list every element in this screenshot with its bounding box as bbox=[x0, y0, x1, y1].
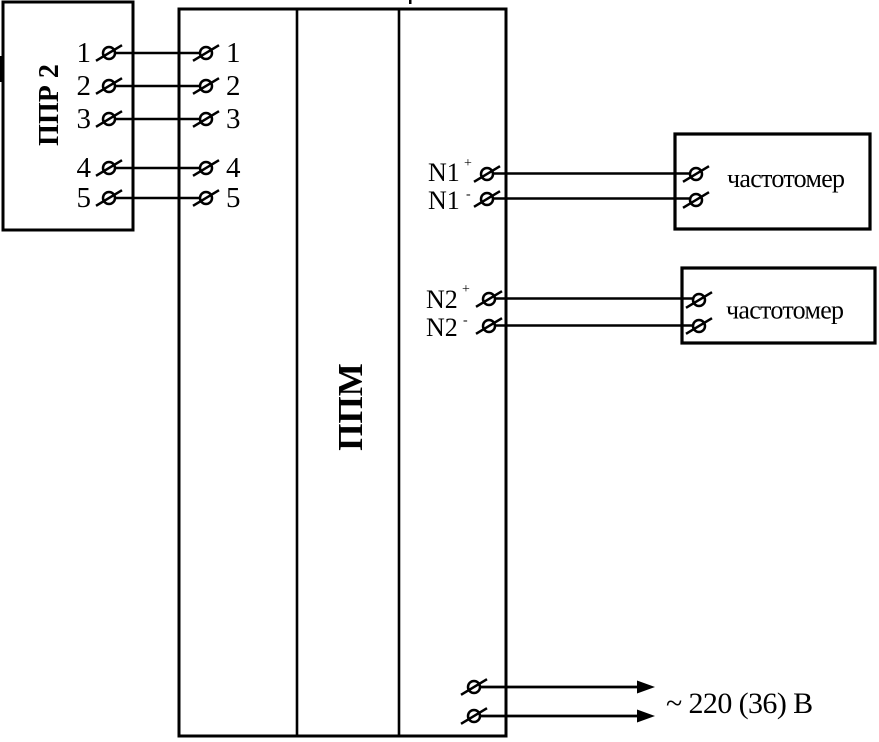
svg-text:1: 1 bbox=[77, 37, 92, 69]
svg-text:2: 2 bbox=[226, 70, 241, 102]
terminal ППР2-2 bbox=[96, 78, 122, 94]
svg-text:N1: N1 bbox=[428, 186, 460, 215]
wire 2 bbox=[116, 85, 199, 88]
svg-text:-: - bbox=[463, 313, 468, 328]
terminal ППМ-5 bbox=[193, 190, 219, 206]
arrowhead power L bbox=[637, 681, 655, 694]
wire 3 bbox=[116, 118, 199, 121]
svg-text:4: 4 bbox=[77, 152, 92, 184]
svg-text:частотомер: частотомер bbox=[726, 296, 843, 325]
terminal ППР2-3 bbox=[96, 111, 122, 127]
svg-text:3: 3 bbox=[226, 103, 241, 135]
terminal ППМ-4 bbox=[193, 160, 219, 176]
arrowhead power N bbox=[637, 710, 655, 723]
svg-text:ППМ: ППМ bbox=[331, 363, 370, 450]
terminal power N bbox=[461, 708, 487, 724]
wire N2- to frequency meter 2 bbox=[496, 324, 693, 327]
svg-text:2: 2 bbox=[77, 70, 92, 102]
terminal power L bbox=[461, 679, 487, 695]
terminal N1- bbox=[474, 191, 500, 207]
box frequency meter 1 bbox=[675, 134, 870, 229]
partition line right bbox=[398, 9, 401, 736]
terminal ППМ-3 bbox=[193, 111, 219, 127]
svg-text:1: 1 bbox=[226, 37, 241, 69]
wire 4 bbox=[116, 167, 199, 170]
terminal ППР2-4 bbox=[96, 160, 122, 176]
terminal ППМ-1 bbox=[193, 45, 219, 61]
terminal frequency meter 2 input - bbox=[686, 318, 712, 334]
svg-text:-: - bbox=[466, 187, 471, 202]
svg-text:N2: N2 bbox=[426, 285, 458, 314]
svg-text:частотомер: частотомер bbox=[727, 164, 844, 193]
terminal frequency meter 1 input - bbox=[683, 192, 709, 208]
wire 1 bbox=[116, 52, 199, 55]
terminal frequency meter 2 input + bbox=[686, 292, 712, 308]
terminal N2+ bbox=[476, 291, 502, 307]
terminal ППР2-1 bbox=[96, 45, 122, 61]
svg-text:N2: N2 bbox=[426, 313, 458, 342]
box ППР 2 bbox=[3, 2, 133, 230]
wire N2+ to frequency meter 2 bbox=[496, 297, 693, 300]
svg-text:ППР 2: ППР 2 bbox=[34, 64, 65, 146]
terminal N1+ bbox=[474, 166, 500, 182]
box ППМ bbox=[179, 9, 506, 736]
terminal ППМ-2 bbox=[193, 78, 219, 94]
partition line left bbox=[296, 9, 299, 736]
svg-text:5: 5 bbox=[77, 182, 92, 214]
wire N1- to frequency meter 1 bbox=[494, 197, 690, 200]
svg-text:4: 4 bbox=[226, 152, 241, 184]
svg-text:+: + bbox=[464, 156, 472, 171]
wire 5 bbox=[116, 197, 199, 200]
wire N1+ to frequency meter 1 bbox=[494, 172, 690, 175]
svg-text:+: + bbox=[462, 282, 470, 297]
box frequency meter 2 bbox=[682, 268, 875, 343]
terminal frequency meter 1 input + bbox=[683, 166, 709, 182]
terminal N2- bbox=[476, 318, 502, 334]
wire power N bbox=[481, 715, 640, 718]
svg-text:5: 5 bbox=[226, 182, 241, 214]
svg-text:3: 3 bbox=[77, 103, 92, 135]
scan mark left edge bbox=[0, 56, 3, 82]
svg-text:~ 220 (36) В: ~ 220 (36) В bbox=[666, 687, 813, 720]
terminal ППР2-5 bbox=[96, 190, 122, 206]
svg-text:N1: N1 bbox=[428, 158, 460, 187]
scan tick above ППМ top edge bbox=[409, 0, 412, 4]
wire power L bbox=[481, 686, 640, 689]
